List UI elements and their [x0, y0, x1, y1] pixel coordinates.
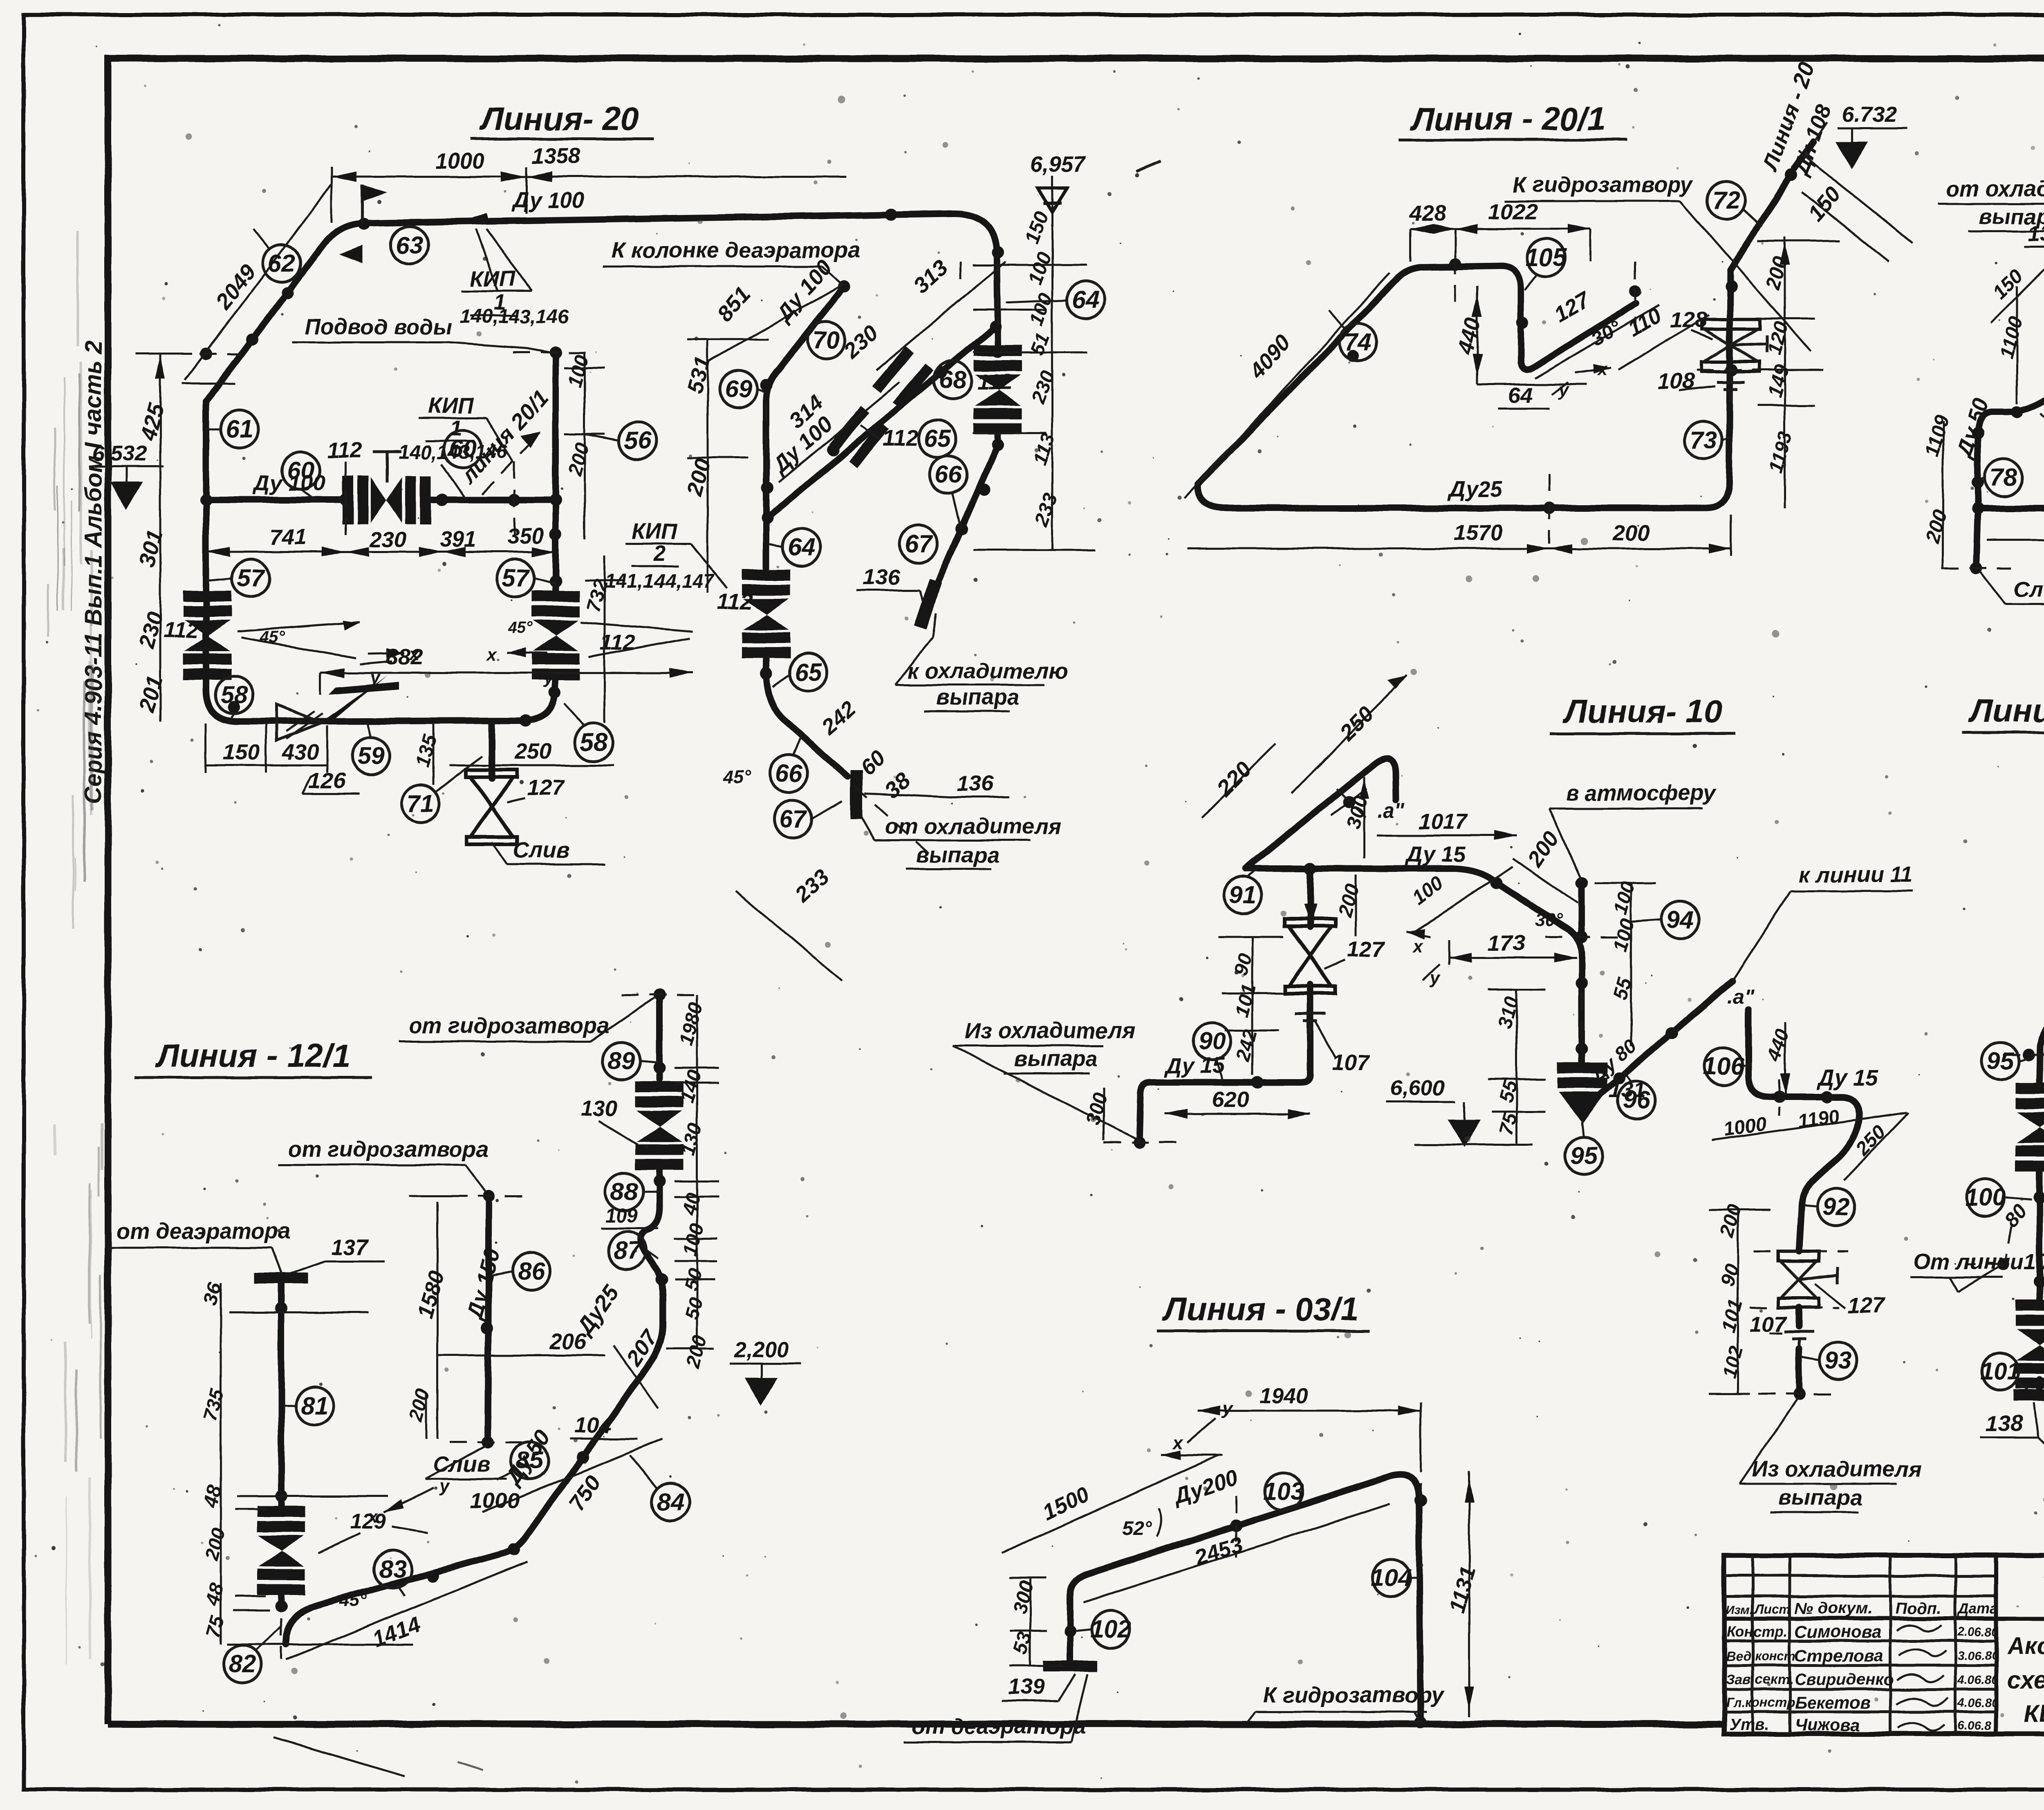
svg-text:75: 75: [1495, 1110, 1522, 1138]
dim 150 430: [206, 723, 327, 773]
dim 200 diag: [1513, 827, 1578, 903]
svg-text:250: 250: [515, 739, 552, 764]
svg-text:64: 64: [1072, 286, 1100, 314]
svg-text:735: 735: [199, 1386, 228, 1424]
svg-text:141,144,147: 141,144,147: [605, 571, 715, 592]
svg-text:112: 112: [977, 370, 1012, 394]
title line-11: [1962, 692, 2044, 733]
svg-text:250: 250: [1335, 702, 1378, 746]
title line-20: [470, 101, 654, 139]
flange pairs on du100 diagonal: [829, 347, 934, 468]
svg-text:Изм.: Изм.: [1726, 1603, 1753, 1617]
svg-text:851: 851: [713, 282, 755, 326]
svg-text:Бекетов: Бекетов: [1795, 1693, 1871, 1712]
dim 2453: [1083, 1504, 1390, 1602]
circle 69: [719, 370, 766, 408]
circle 87: [608, 1232, 658, 1269]
ot ohladitelya vypara label line12: [1938, 177, 2044, 262]
circle 90: [1193, 1023, 1231, 1079]
circle 57 left: [206, 559, 269, 597]
svg-text:95: 95: [1570, 1142, 1598, 1169]
ot deaeratora label: [108, 1219, 291, 1273]
k linii 11 label: [1732, 862, 1913, 981]
svg-text:у: у: [1429, 968, 1441, 988]
svg-text:100: 100: [1024, 249, 1056, 288]
svg-text:136: 136: [957, 771, 994, 796]
sliv line12: [1981, 572, 2044, 604]
dim 1131: [1445, 1472, 1481, 1717]
valve 112 right column: [531, 591, 635, 680]
svg-text:Линия - 03/1: Линия - 03/1: [1162, 1291, 1358, 1327]
k ohladitelyu vypara: [895, 613, 1068, 711]
elevation 6.532: [90, 441, 164, 507]
dim 45deg 1414: [274, 1561, 527, 1776]
svg-text:882: 882: [386, 645, 423, 669]
valve 127 line10 hourglass: [1285, 919, 1385, 993]
flange 136 lower: [850, 770, 1010, 819]
sliv label: [492, 838, 605, 864]
title line-10: [1549, 693, 1735, 734]
svg-text:от гидрозатвора: от гидрозатвора: [288, 1137, 489, 1162]
svg-text:440: 440: [1452, 315, 1486, 358]
svg-text:242: 242: [816, 697, 861, 740]
svg-text:113: 113: [1029, 430, 1060, 467]
dim 135: [412, 723, 441, 785]
svg-text:150: 150: [223, 740, 260, 764]
circle 60 left: [282, 452, 320, 500]
right column dims 6957: [973, 152, 1096, 550]
nodes line11: [1997, 762, 2044, 1288]
svg-text:112: 112: [883, 426, 918, 450]
svg-text:103: 103: [1263, 1477, 1304, 1505]
svg-text:130: 130: [677, 1120, 706, 1158]
circle 95: [1565, 1122, 1602, 1174]
svg-text:112: 112: [327, 438, 362, 463]
circle 104: [1371, 1559, 1419, 1597]
dim 150: [1799, 151, 1913, 262]
svg-text:К гидрозатвору: К гидрозатвору: [1263, 1683, 1445, 1707]
circle 83: [374, 1550, 412, 1596]
circle 71: [402, 756, 482, 822]
iz ohladitelya vypara label: [953, 1019, 1139, 1140]
drain valve 127: [466, 721, 565, 844]
svg-text:к охладителю: к охладителю: [908, 659, 1068, 683]
svg-text:57: 57: [237, 564, 265, 591]
line20 dn108 note: [1757, 59, 1836, 179]
svg-text:у: у: [439, 1476, 450, 1496]
circle 68 upper: [934, 361, 1012, 399]
label du15 620 300: [1082, 1053, 1310, 1140]
circle 102: [1075, 1611, 1131, 1648]
svg-text:Свириденко: Свириденко: [1795, 1671, 1894, 1689]
svg-text:50: 50: [681, 1295, 707, 1322]
dim 1570 200: [1188, 515, 1731, 556]
pipe line-10 main: [1139, 758, 1732, 1142]
svg-text:48: 48: [201, 1581, 228, 1608]
circle 72: [1707, 181, 1762, 227]
circle 64 right: [1006, 281, 1105, 319]
svg-text:200: 200: [1334, 881, 1364, 919]
svg-text:430: 430: [282, 740, 319, 764]
elevation 6600 line10: [1386, 1076, 1533, 1145]
check valve 59: [276, 675, 388, 741]
end flange 138: [1981, 1390, 2044, 1488]
nodes branch106: [1773, 1091, 1833, 1400]
svg-text:100: 100: [1965, 1184, 2006, 1211]
svg-text:112: 112: [164, 618, 199, 643]
svg-text:136: 136: [2028, 222, 2044, 246]
svg-text:Линия- 10: Линия- 10: [1562, 693, 1722, 730]
dim 1000 du50 750: [470, 1426, 662, 1515]
svg-text:Ду 15: Ду 15: [1163, 1053, 1225, 1078]
circle 67 upper: [900, 525, 937, 563]
circle 67 second: [774, 800, 842, 838]
svg-text:425: 425: [135, 401, 169, 443]
svg-text:63: 63: [396, 231, 424, 259]
svg-text:Линия- 20: Линия- 20: [479, 101, 639, 137]
label du15 line10: [1405, 842, 1466, 867]
point a line11: [1727, 985, 1755, 1008]
svg-text:36: 36: [199, 1280, 226, 1307]
svg-text:1017: 1017: [1419, 809, 1469, 834]
svg-text:К гидрозатвору: К гидрозатвору: [1513, 172, 1694, 197]
svg-text:105: 105: [1526, 244, 1567, 271]
pipe branch 106: [1748, 1010, 1859, 1394]
svg-text:1190: 1190: [1796, 1105, 1841, 1133]
svg-text:127: 127: [1347, 937, 1385, 961]
dashed line12: [1942, 351, 2044, 568]
point a line10: [1378, 799, 1405, 822]
svg-text:200: 200: [405, 1386, 434, 1424]
series vertical text left margin: [80, 340, 107, 804]
svg-text:3.06.80: 3.06.80: [1957, 1649, 1998, 1662]
dim 2049 diagonal: [182, 184, 332, 383]
dim 1100: [1995, 286, 2027, 404]
dim column right of node: 100 200: [564, 352, 605, 540]
svg-text:59: 59: [357, 742, 385, 770]
svg-text:313: 313: [909, 255, 953, 298]
svg-text:64: 64: [1508, 383, 1533, 408]
svg-text:350: 350: [507, 524, 544, 549]
nodes line-20/1: [1347, 169, 1797, 514]
svg-text:к линии 11: к линии 11: [1799, 862, 1913, 887]
dim 206 du25 207: [437, 1281, 663, 1408]
k kolonke dea label: [603, 238, 860, 285]
svg-text:х: х: [486, 644, 497, 664]
svg-text:4.06.80: 4.06.80: [1957, 1673, 1998, 1687]
svg-text:53: 53: [1009, 1630, 1036, 1657]
svg-text:93: 93: [1825, 1346, 1852, 1374]
svg-text:Ду 100: Ду 100: [252, 471, 325, 495]
svg-text:201: 201: [134, 673, 168, 715]
sliv line-12/1: [425, 1445, 507, 1479]
svg-text:56: 56: [624, 427, 652, 454]
svg-text:300: 300: [1009, 1578, 1038, 1615]
svg-text:120: 120: [1763, 319, 1793, 356]
dim 200 left col: [1334, 875, 1364, 936]
svg-text:200: 200: [1612, 521, 1650, 545]
valve 112 middle horizontal: [342, 476, 431, 524]
svg-text:45°: 45°: [260, 628, 285, 646]
svg-text:1193: 1193: [1765, 429, 1797, 475]
circle 103: [1263, 1472, 1304, 1510]
dim 735 48 200 48 75: [199, 1312, 413, 1644]
svg-text:1940: 1940: [1259, 1383, 1308, 1408]
dim 109: [601, 1205, 658, 1228]
axes xy 03/1: [1161, 1398, 1233, 1460]
svg-text:741: 741: [270, 525, 307, 549]
svg-text:230: 230: [370, 527, 407, 552]
svg-text:1358: 1358: [531, 144, 580, 168]
svg-text:57: 57: [502, 564, 530, 591]
svg-text:127: 127: [1550, 287, 1595, 327]
svg-text:.а": .а": [1727, 985, 1755, 1008]
svg-text:Лист: Лист: [1754, 1602, 1791, 1617]
svg-text:109: 109: [605, 1205, 638, 1227]
svg-text:2: 2: [653, 541, 666, 566]
svg-text:Линия - 20/1: Линия - 20/1: [1410, 101, 1606, 137]
svg-text:104: 104: [574, 1413, 611, 1438]
dim 64 axes: [1488, 359, 1611, 409]
valve 129: [257, 1506, 386, 1595]
svg-text:82: 82: [229, 1650, 256, 1678]
circle 88: [605, 1173, 659, 1211]
svg-text:200: 200: [1523, 827, 1564, 872]
svg-text:6.532: 6.532: [92, 441, 147, 466]
svg-text:Ду 15: Ду 15: [1817, 1066, 1878, 1090]
svg-text:55: 55: [1609, 975, 1636, 1003]
pipe diagonal du100 lower: [767, 327, 995, 518]
svg-text:Из охладителя: Из охладителя: [965, 1019, 1135, 1043]
svg-text:391: 391: [439, 527, 476, 552]
dim 250: [450, 739, 613, 765]
svg-text:1131: 1131: [1445, 1564, 1481, 1616]
label du100 lower diag: [766, 412, 838, 479]
dim col 300 53: [1009, 1578, 1063, 1666]
line 20/1 rotated note: [455, 386, 553, 495]
svg-text:102: 102: [1718, 1343, 1748, 1380]
circle 59: [352, 723, 390, 775]
svg-text:67: 67: [905, 530, 933, 558]
svg-text:92: 92: [1823, 1193, 1850, 1221]
svg-text:83: 83: [379, 1555, 407, 1583]
valve 130: [580, 1081, 684, 1170]
dim 882 + bar: [320, 645, 693, 695]
svg-text:69: 69: [725, 375, 752, 403]
pipe line-20 main loop: [206, 214, 998, 721]
svg-text:выпара: выпара: [1778, 1485, 1862, 1510]
svg-text:88: 88: [611, 1178, 638, 1205]
svg-text:137: 137: [331, 1235, 369, 1260]
arrowhead into valve: [1304, 904, 1317, 925]
svg-text:100: 100: [564, 352, 593, 389]
label du100 diag: [771, 255, 837, 327]
valve 131 line11 upper: [2015, 1082, 2044, 1172]
axes xy line12/1: [367, 1476, 450, 1533]
svg-text:Ду 50: Ду 50: [1951, 395, 1993, 461]
svg-text:Из охладителя: Из охладителя: [1752, 1457, 1922, 1481]
svg-text:Дата: Дата: [1957, 1600, 1998, 1617]
svg-text:Линия - 12/1: Линия - 12/1: [155, 1037, 351, 1074]
svg-text:70: 70: [813, 326, 840, 354]
nodes line-20: [200, 208, 1004, 727]
dim 741 230 391 350: [206, 524, 556, 557]
svg-text:52°: 52°: [1122, 1518, 1152, 1539]
dim 100 55 right col: [1594, 879, 1656, 1046]
svg-text:Аксонометрическая: Аксонометрическая: [2006, 1633, 2044, 1660]
dim 36: [199, 1280, 368, 1312]
svg-text:100: 100: [1408, 872, 1448, 909]
k gidrozatvoru label: [1504, 172, 1811, 352]
svg-text:50: 50: [680, 1266, 706, 1293]
svg-text:301: 301: [134, 528, 168, 570]
dashed crossing marks: [172, 262, 998, 538]
svg-text:94: 94: [1667, 906, 1694, 933]
dim col 90 101 242: [1218, 937, 1284, 1075]
svg-text:45°: 45°: [339, 1590, 367, 1611]
svg-text:67: 67: [780, 805, 808, 832]
svg-text:65: 65: [924, 425, 952, 452]
svg-text:Подвод воды: Подвод воды: [305, 315, 453, 339]
valve 68 on riser: [974, 345, 1022, 434]
dim 440: [1452, 286, 1586, 384]
circle 60 right: [444, 430, 482, 468]
svg-text:230: 230: [839, 320, 883, 364]
svg-text:75: 75: [202, 1613, 229, 1640]
svg-text:от гидрозатвора: от гидрозатвора: [409, 1014, 609, 1038]
dashed line-03/1: [1236, 1455, 1459, 1723]
circle 101: [1980, 1353, 2028, 1390]
svg-text:206: 206: [549, 1329, 587, 1354]
dim 230 mid: [839, 320, 883, 364]
svg-text:Вед.конст.: Вед.конст.: [1726, 1649, 1800, 1663]
svg-text:1414: 1414: [370, 1612, 424, 1652]
elevation 6.732: [1838, 102, 1907, 167]
kip2 label: [605, 519, 728, 592]
circle 78: [1978, 459, 2022, 496]
svg-text:58: 58: [221, 681, 248, 708]
circle 100: [1965, 1179, 2032, 1231]
svg-text:138: 138: [1986, 1411, 2023, 1436]
ot ohladitelya vypara line20: [862, 814, 1061, 869]
wire branch 68 to flange 136 upper: [933, 445, 998, 594]
circle 63: [391, 226, 428, 264]
svg-text:72: 72: [1712, 186, 1740, 214]
iz ohladitelya vypara 106: [1739, 1397, 1922, 1512]
circle 82: [224, 1627, 281, 1683]
valve 112 stem middle: [327, 438, 401, 482]
svg-text:126: 126: [309, 768, 346, 793]
dashed branch106: [1750, 1079, 1848, 1394]
dashed line10: [1104, 787, 1717, 1142]
svg-text:200: 200: [1922, 507, 1951, 545]
circle 94: [1631, 901, 1699, 939]
pipe line-12/1 column A: [286, 995, 663, 1644]
svg-text:101: 101: [1231, 982, 1260, 1019]
svg-text:55: 55: [1495, 1077, 1522, 1105]
pipe line-12/1 column C: [488, 1196, 489, 1442]
svg-text:Ду25: Ду25: [1448, 477, 1503, 502]
svg-text:1570: 1570: [1453, 521, 1502, 545]
dim 104 200: [405, 1386, 638, 1439]
svg-text:106: 106: [1703, 1052, 1744, 1080]
svg-text:107: 107: [1332, 1051, 1370, 1075]
svg-text:выпара: выпара: [1014, 1046, 1098, 1071]
title line-12/1: [135, 1037, 372, 1077]
support flag on pipe: [339, 185, 387, 263]
dim 1940: [1198, 1383, 1421, 1455]
circle 86: [491, 1252, 550, 1290]
dim 250: [1292, 675, 1406, 793]
circle 65 second: [773, 654, 827, 691]
svg-text:1100: 1100: [1995, 314, 2027, 361]
svg-text:220: 220: [1212, 757, 1256, 801]
dim 314: [779, 382, 899, 482]
circle 64 second: [769, 529, 820, 566]
svg-text:62: 62: [268, 249, 296, 277]
dim 1000 1190: [1711, 1105, 1907, 1141]
circle 70: [807, 321, 845, 359]
circle 57 right: [497, 559, 556, 597]
svg-text:173: 173: [1488, 931, 1525, 955]
svg-text:200: 200: [681, 1333, 711, 1371]
dim 220 line10: [1202, 744, 1275, 818]
circle 81: [282, 1387, 334, 1425]
svg-text:КИП: КИП: [428, 393, 474, 418]
svg-text:Слив: Слив: [513, 838, 569, 862]
svg-text:1000: 1000: [435, 149, 484, 173]
svg-text:102: 102: [1090, 1615, 1131, 1643]
dim 173 30deg: [1406, 910, 1577, 988]
dashed line-12/1: [281, 995, 699, 1660]
circle 85: [497, 1442, 548, 1480]
label du25: [1448, 477, 1503, 502]
ot gidrozatvora label 1: [399, 998, 654, 1042]
circle 106: [1703, 1047, 1748, 1085]
svg-text:х: х: [1172, 1433, 1184, 1453]
svg-text:112: 112: [717, 589, 753, 614]
svg-text:150: 150: [1022, 208, 1053, 247]
svg-text:4.06.80: 4.06.80: [1957, 1696, 1998, 1710]
svg-text:51: 51: [1026, 330, 1054, 358]
svg-text:1580: 1580: [413, 1268, 449, 1322]
pipe line-12/1 column B: [278, 1284, 285, 1606]
svg-text:87: 87: [614, 1237, 642, 1264]
svg-text:233: 233: [1030, 491, 1062, 529]
circle 73: [1685, 421, 1731, 459]
kip1 upper label: [460, 213, 569, 327]
svg-text:531: 531: [682, 354, 715, 396]
svg-text:Утв.: Утв.: [1729, 1716, 1769, 1734]
svg-text:150: 150: [1803, 182, 1846, 226]
svg-text:440: 440: [1763, 1026, 1794, 1065]
symbol 107 line10: [1295, 1014, 1370, 1075]
svg-text:96: 96: [1623, 1086, 1650, 1113]
svg-text:2,200: 2,200: [733, 1337, 789, 1362]
pipe line-20/1 main: [1198, 142, 1813, 508]
dim 1600: [1987, 514, 2044, 545]
svg-text:65: 65: [795, 659, 823, 686]
circle 84: [630, 1455, 689, 1521]
svg-text:1109: 1109: [1921, 412, 1953, 459]
svg-text:от охладителя: от охладителя: [1946, 177, 2044, 201]
svg-text:139: 139: [1008, 1675, 1044, 1699]
dim col 200 90 101 102: [1709, 1202, 1770, 1394]
left column grid: [1724, 1575, 1996, 1577]
svg-text:150: 150: [1989, 265, 2027, 303]
45 deg axes right valve: [486, 618, 693, 688]
svg-text:136: 136: [863, 565, 900, 589]
